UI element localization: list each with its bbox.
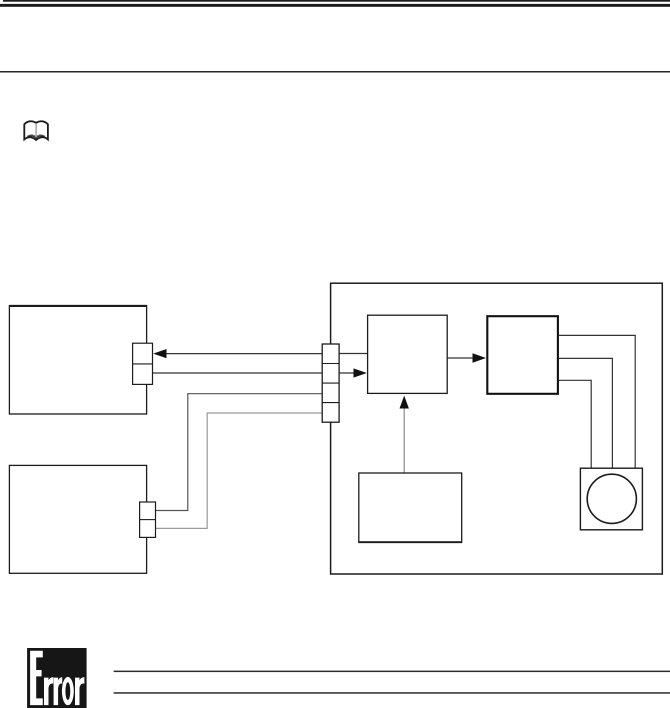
- book icon: [24, 121, 48, 140]
- wire E (box2 to speaker, outer): [559, 335, 636, 468]
- bottom-left box connector (2 ports): [140, 502, 156, 537]
- speaker box: [580, 468, 642, 530]
- top-left box: [9, 305, 146, 414]
- wire B (top-left connector to CPU with right arrow): [153, 368, 367, 377]
- inner box 1 (controller): [368, 315, 448, 393]
- inner box 2 (driver): [487, 316, 558, 394]
- interface connector column (4 ports): [322, 344, 339, 422]
- wire G (box2 to speaker, inner): [559, 380, 592, 468]
- wire A (right line into top-left connector): [153, 349, 367, 358]
- header thick bar: [0, 4, 670, 7]
- wire D (bottom-left connector up to column, gray): [156, 413, 323, 528]
- footer rule 1: [114, 671, 670, 673]
- gray up arrow (bottom box to controller): [400, 396, 409, 473]
- Error logo text: [30, 651, 84, 706]
- speaker circle: [587, 474, 636, 523]
- wire F (box2 to speaker, middle): [559, 358, 613, 468]
- header thin rule: [3, 0, 670, 2]
- arrow controller to box 2: [447, 353, 486, 363]
- section rule under header: [0, 71, 670, 73]
- bottom box (power unit): [359, 473, 462, 543]
- big outer box (main unit): [331, 283, 663, 574]
- wire C (bottom-left connector up to column): [156, 394, 323, 511]
- Error logo black box: [27, 648, 87, 708]
- bottom-left box: [9, 465, 146, 573]
- top-left box connector (2 ports): [133, 343, 153, 384]
- footer rule 2: [114, 692, 670, 694]
